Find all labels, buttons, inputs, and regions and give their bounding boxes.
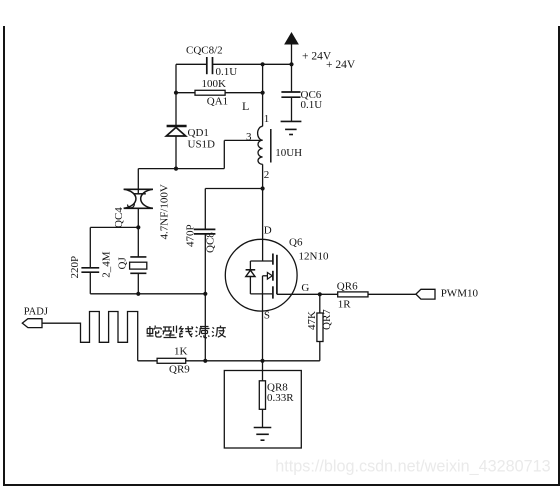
svg-text:470P: 470P bbox=[185, 224, 197, 247]
capacitor 220P bbox=[81, 268, 99, 272]
wire top rail y=64.3 bbox=[176, 63, 292, 65]
svg-text:QC8: QC8 bbox=[205, 232, 217, 253]
wire serpentine line (meander) bbox=[42, 312, 138, 361]
node dot QA1 right bbox=[261, 91, 265, 95]
wire 220P branch top bbox=[90, 227, 138, 267]
wire drain from pin2 bbox=[262, 189, 264, 262]
node dot QJ/rail bbox=[136, 292, 140, 296]
resistor QR9 1K bbox=[157, 358, 186, 363]
svg-text:QC4: QC4 bbox=[113, 207, 125, 228]
svg-text:Q6: Q6 bbox=[289, 237, 303, 249]
capacitor QC8 470P bbox=[194, 229, 215, 234]
svg-text:0.33R: 0.33R bbox=[267, 392, 294, 404]
wire left bottom rail y=293.8 bbox=[90, 293, 205, 295]
label serpentine filter (Chinese) 蛇型线滤波 bbox=[147, 326, 226, 338]
svg-text:PWM10: PWM10 bbox=[441, 288, 479, 300]
svg-text:PADJ: PADJ bbox=[24, 307, 48, 318]
wire source bottom rail bbox=[138, 276, 320, 381]
resistor QR6 1R bbox=[338, 292, 416, 297]
svg-text:QJ: QJ bbox=[117, 257, 129, 270]
svg-text:QR6: QR6 bbox=[337, 281, 358, 293]
node dot L pin2 bbox=[261, 186, 265, 190]
svg-text:US1D: US1D bbox=[188, 138, 216, 150]
node dot under QD1 bbox=[174, 167, 178, 171]
sheet border right bbox=[558, 26, 560, 485]
ground (QR8) bbox=[254, 428, 272, 441]
power +24V symbol bbox=[285, 33, 298, 64]
transistor Q6 12N10 bbox=[225, 239, 297, 311]
svg-text:https://blog.csdn.net/weixin_4: https://blog.csdn.net/weixin_43280713 bbox=[275, 458, 550, 476]
svg-text:L: L bbox=[242, 99, 249, 113]
node dot top rail / +24V bbox=[289, 62, 293, 66]
svg-text:2_4M: 2_4M bbox=[100, 251, 112, 278]
port PWM10 bbox=[416, 289, 435, 299]
svg-text:0.1U: 0.1U bbox=[301, 99, 323, 111]
svg-text:+ 24V: + 24V bbox=[326, 59, 356, 71]
svg-text:12N10: 12N10 bbox=[299, 250, 329, 262]
crystal QJ bbox=[130, 227, 147, 293]
svg-text:QR7: QR7 bbox=[321, 309, 333, 330]
node dot QC8/rail bbox=[203, 359, 207, 363]
node dot QC4 bottom bbox=[136, 225, 140, 229]
svg-text:CQC8/2: CQC8/2 bbox=[186, 45, 223, 57]
svg-text:G: G bbox=[301, 282, 309, 294]
capacitor QC6 bbox=[281, 64, 300, 121]
svg-text:D: D bbox=[264, 224, 272, 236]
svg-text:2: 2 bbox=[264, 169, 270, 181]
svg-text:S: S bbox=[264, 309, 270, 321]
svg-text:3: 3 bbox=[246, 131, 252, 143]
svg-text:1: 1 bbox=[264, 113, 270, 125]
node dot S/rail bbox=[260, 359, 264, 363]
node dot gate/QR7 bbox=[318, 292, 322, 296]
wire QC8 bottom bbox=[204, 234, 206, 361]
svg-text:4.7NF/100V: 4.7NF/100V bbox=[159, 184, 171, 239]
resistor QR7 47K bbox=[317, 294, 323, 361]
svg-text:100K: 100K bbox=[202, 78, 227, 90]
wire node row y=168.6 bbox=[138, 140, 262, 168]
wire pin2 node to QC8 bbox=[205, 189, 262, 230]
svg-text:QR9: QR9 bbox=[169, 363, 190, 375]
wire gate to QR6 bbox=[277, 293, 338, 295]
wire left branch from QD1 node bbox=[137, 169, 139, 194]
sheet border left bbox=[3, 26, 5, 485]
box QR8 bbox=[224, 371, 301, 449]
port PADJ bbox=[22, 319, 42, 328]
svg-text:QA1: QA1 bbox=[207, 95, 228, 107]
svg-text:10UH: 10UH bbox=[275, 147, 302, 159]
ground (QC6) bbox=[281, 121, 302, 134]
node dot top rail / L pin1 bbox=[261, 62, 265, 66]
capacitor CQC8/2 bbox=[207, 57, 213, 74]
resistor QA1 100K bbox=[176, 90, 263, 95]
svg-text:1R: 1R bbox=[338, 299, 352, 311]
inductor L 10UH bbox=[258, 64, 271, 188]
node dot QC8/left rail bbox=[203, 292, 207, 296]
node dot QA1 left bbox=[174, 91, 178, 95]
wire 220P bottom bbox=[89, 272, 91, 294]
svg-text:0.1U: 0.1U bbox=[216, 66, 238, 78]
sheet border bottom bbox=[3, 484, 560, 486]
capacitor QC4 4.7NF/100V bbox=[124, 189, 153, 227]
diode QD1 US1D bbox=[166, 64, 186, 168]
svg-text:QD1: QD1 bbox=[188, 127, 209, 139]
resistor QR8 0.33R bbox=[259, 381, 265, 428]
svg-text:1K: 1K bbox=[174, 346, 188, 358]
svg-text:220P: 220P bbox=[69, 256, 81, 279]
svg-text:47K: 47K bbox=[306, 311, 318, 330]
